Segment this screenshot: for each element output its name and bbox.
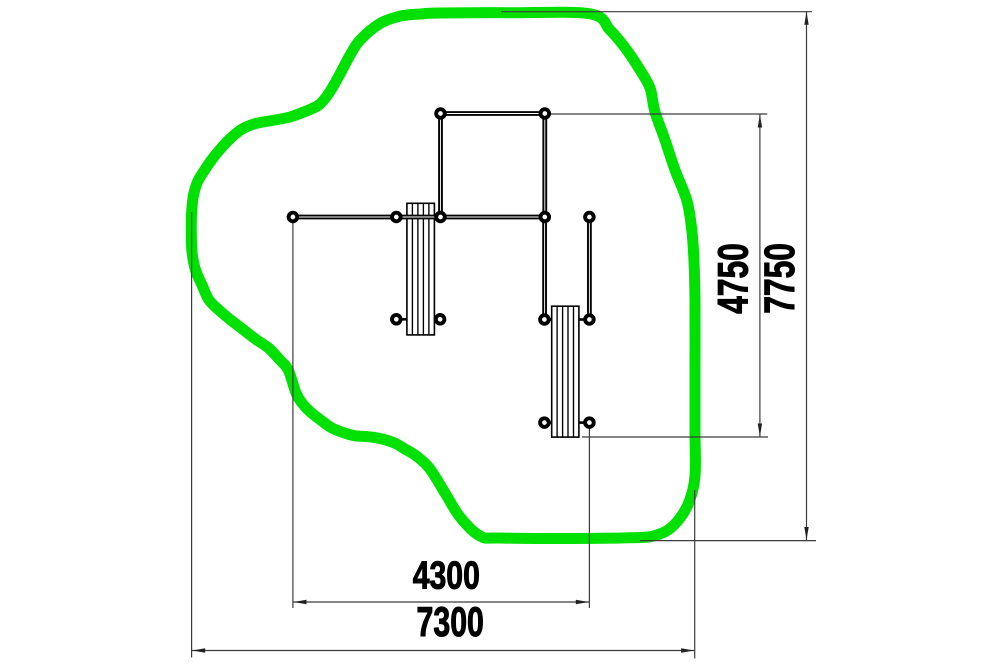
dimension line 4750 — [759, 115, 761, 437]
post square top-right — [541, 109, 550, 118]
dimension line 7750 — [806, 12, 808, 540]
svg-text:4750: 4750 — [709, 243, 756, 314]
post ladder1 bottom-left — [392, 315, 401, 324]
post bar left — [289, 213, 298, 222]
svg-text:7750: 7750 — [756, 243, 803, 314]
post ladder2 bottom-left — [540, 418, 549, 427]
post rail top — [585, 213, 594, 222]
extension line blob right down — [694, 490, 696, 658]
ladder 2 bottom-left stub — [544, 421, 551, 424]
post square top-left — [436, 109, 445, 118]
arrowhead 7300 right — [681, 648, 694, 652]
arrowhead 4300 left — [294, 600, 307, 604]
arrowhead 4750 up — [758, 115, 762, 128]
extension line blob left down — [191, 212, 193, 658]
handrail bar inner white core — [293, 114, 590, 320]
ladder 2 top-left stub — [544, 318, 551, 321]
extension line ladder2 bottom (4750) — [582, 436, 768, 438]
post bar mid-right — [436, 213, 445, 222]
ladder 1 deck — [407, 203, 435, 335]
arrowhead 7300 left — [192, 648, 205, 652]
extension line from ladder2 bottom-right post down — [588, 423, 590, 608]
ladder 2 bottom-right stub — [579, 421, 590, 424]
extension line blob bottom (7750) — [640, 540, 816, 542]
extension line from square top-right post — [545, 113, 767, 115]
extension line top (blob top tangent) — [501, 11, 812, 13]
ladder 1 bottom-left stub — [396, 318, 407, 321]
arrowhead 7750 down — [804, 527, 808, 540]
post ladder1 bottom-right — [436, 315, 445, 324]
safety zone outline (green blob) — [191, 12, 695, 538]
dimension line 4300 — [293, 601, 590, 603]
post ladder2 top-left — [540, 315, 549, 324]
ladder 2 deck — [552, 306, 579, 437]
ladder 1 rungs — [412, 203, 429, 335]
handrail bar outer — [293, 114, 590, 320]
svg-text:4300: 4300 — [413, 554, 480, 598]
svg-text:7300: 7300 — [417, 598, 484, 645]
ladder 2 top-right stub — [579, 318, 590, 321]
post bar mid-left — [392, 213, 401, 222]
arrowhead 7750 up — [804, 12, 808, 25]
arrowhead 4300 right — [576, 600, 589, 604]
ladder 1 bottom-right stub — [434, 318, 440, 321]
extension line from bar left post down — [292, 217, 294, 608]
arrowhead 4750 down — [758, 424, 762, 437]
post ladder2 top-right — [585, 315, 594, 324]
post bar right — [541, 213, 550, 222]
ladder 2 rungs — [557, 306, 573, 437]
post ladder2 bottom-right — [585, 418, 594, 427]
dimension line 7300 — [192, 650, 695, 652]
